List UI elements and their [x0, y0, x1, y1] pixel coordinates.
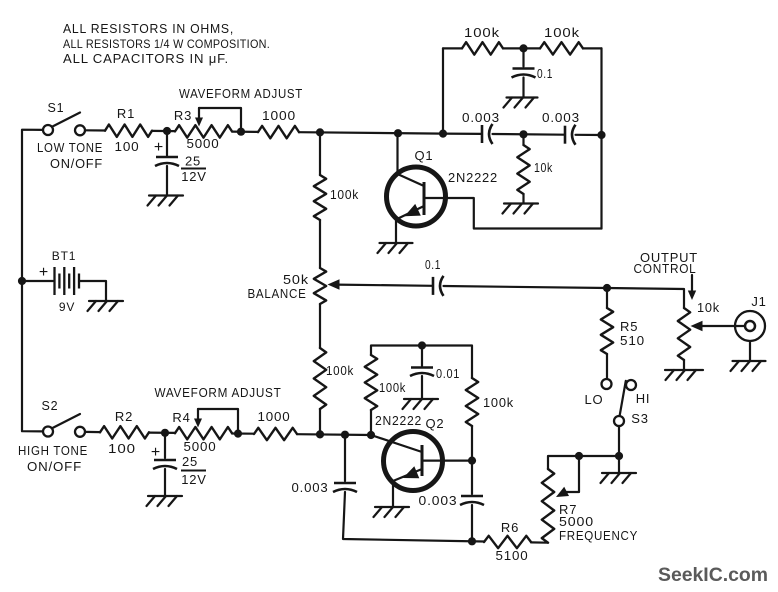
svg-text:R6: R6 [501, 520, 519, 535]
label BT1 polarity + [39, 264, 49, 281]
ground under S3 [601, 473, 637, 483]
wire: base lead of Q2 [371, 435, 422, 452]
svg-text:SeekIC.com: SeekIC.com [658, 564, 768, 586]
note: all capacitors in uF [63, 51, 229, 66]
svg-text:S2: S2 [42, 399, 59, 413]
svg-text:HI: HI [636, 391, 651, 406]
label R3 [174, 108, 192, 123]
junction: 0.003 chain node [341, 431, 349, 439]
resistor 10k twin-T shunt [517, 145, 529, 194]
label 0.003 second [542, 110, 580, 125]
label R2 [115, 409, 133, 424]
svg-text:1000: 1000 [262, 108, 296, 123]
wire: Q2 left 100k vertical [370, 410, 372, 435]
ground under C1 [148, 196, 184, 206]
wire: 0.1 cap to output node [444, 286, 685, 308]
note: all resistors in ohms [63, 21, 234, 36]
wire: 1000 to twin-T left [299, 132, 443, 133]
wire: Q1 emitter to ground [395, 220, 397, 243]
transistor Q2 circle [384, 432, 443, 491]
junction: Q2 base node [367, 431, 375, 439]
label 0.003 first [462, 110, 500, 125]
switch S2 throw contact [75, 427, 85, 437]
svg-text:9V: 9V [59, 300, 75, 314]
svg-text:S3: S3 [631, 411, 649, 426]
label R4 value 5000 [184, 439, 217, 454]
svg-text:510: 510 [620, 333, 645, 348]
capacitor 0.1 coupling [433, 276, 444, 296]
terminal LO contact [602, 379, 612, 389]
wire: output node to R5 [606, 288, 608, 308]
svg-text:+: + [39, 264, 49, 281]
svg-text:10k: 10k [697, 300, 720, 315]
capacitor 0.01 [410, 368, 434, 377]
svg-text:5000: 5000 [184, 439, 217, 454]
label R4 [172, 410, 190, 425]
svg-text:100k: 100k [483, 395, 514, 410]
note: all resistors 1/4 W composition [63, 37, 270, 51]
label R1 value 100 [115, 139, 140, 154]
resistor 1000 top [258, 126, 299, 138]
resistor 100k twin-T first [462, 42, 503, 54]
wire: twin-T top right lead [583, 47, 602, 49]
svg-text:100: 100 [115, 139, 140, 154]
resistor 100k Q2 left [365, 355, 377, 410]
svg-text:2N2222: 2N2222 [375, 413, 422, 428]
label WAVEFORM ADJUST (R3) [179, 86, 303, 101]
junction: R3 wiper tie [237, 128, 245, 136]
svg-text:+: + [154, 139, 164, 156]
wire: R6 to R7 bottom [531, 541, 548, 543]
capacitor 0.003 twin-T first [482, 124, 493, 144]
svg-text:100k: 100k [544, 25, 580, 40]
switch S1 pole contact [43, 125, 53, 135]
svg-text:100k: 100k [379, 380, 406, 395]
label BT1 value 9V [59, 300, 75, 314]
svg-text:J1: J1 [751, 294, 766, 309]
wire: rail to battery [22, 280, 53, 282]
svg-text:2N2222: 2N2222 [448, 170, 498, 185]
wire: battery to ground [79, 281, 106, 300]
wire: 0.003 first left lead [443, 133, 481, 135]
wire: R4 to 1000 bottom [232, 432, 254, 434]
svg-text:R5: R5 [620, 319, 638, 334]
wire: lower 100k to bottom row [319, 409, 321, 434]
junction: central vertical at bottom row [316, 430, 324, 438]
wire: 1000 to Q2 base node [297, 433, 371, 436]
svg-text:BALANCE: BALANCE [248, 286, 307, 301]
svg-text:0.003: 0.003 [419, 493, 458, 508]
svg-text:R1: R1 [117, 106, 135, 121]
junction: R7 wiper tie [575, 452, 583, 460]
svg-text:WAVEFORM ADJUST: WAVEFORM ADJUST [155, 385, 282, 400]
capacitor 0.1 twin-T shunt [512, 69, 536, 78]
connector J1 center pin [745, 321, 755, 331]
svg-text:5000: 5000 [559, 514, 594, 529]
wire: 10k to ground [522, 194, 524, 203]
svg-text:R3: R3 [174, 108, 192, 123]
label 0.1 twin-T [537, 66, 553, 81]
svg-text:LO: LO [585, 392, 604, 407]
resistor R4 potentiometer [175, 427, 232, 439]
capacitor 0.003 chain [333, 483, 357, 492]
svg-text:ALL RESISTORS IN OHMS,: ALL RESISTORS IN OHMS, [63, 21, 234, 36]
ground under 10k pot [665, 370, 703, 380]
junction: node A (R1/R3/C1) [163, 127, 171, 135]
label J1 [751, 294, 766, 309]
label S2 [42, 399, 59, 413]
svg-text:CONTROL: CONTROL [634, 261, 697, 276]
junction: bottom wire at Q2 0.003 [468, 537, 476, 545]
switch S1 throw contact [75, 125, 85, 135]
resistor R3 potentiometer [175, 125, 232, 137]
wire: Q2 network top [371, 346, 472, 379]
label ON/OFF for S1 [50, 156, 103, 171]
label 0.1 coupling [425, 257, 441, 272]
wire: twin-T left vertical [442, 48, 444, 133]
wire: Q2 emitter to ground [392, 481, 394, 506]
label Q1 [415, 148, 434, 163]
wire: chain node down to 0.003 [344, 435, 346, 481]
label 50k [283, 272, 309, 287]
capacitor 0.003 Q2 collector [460, 496, 484, 505]
svg-text:12V: 12V [181, 472, 207, 487]
wire: 0.003 second to twin-T right [576, 134, 602, 136]
resistor R1 [105, 125, 152, 137]
label C1 value 12V [181, 169, 207, 184]
label 1000 bottom [258, 409, 291, 424]
svg-text:100: 100 [108, 441, 136, 456]
svg-text:R2: R2 [115, 409, 133, 424]
wire: 100k to 50k balance [319, 220, 321, 268]
junction: S3 ground node [615, 452, 623, 460]
svg-text:100k: 100k [326, 363, 354, 378]
svg-text:5000: 5000 [187, 136, 220, 151]
label 100k twin-T second [544, 25, 580, 40]
terminal HI contact [626, 380, 636, 390]
svg-text:5100: 5100 [496, 548, 529, 563]
wire: R4 wiper arm bracket [198, 409, 238, 434]
svg-text:FREQUENCY: FREQUENCY [559, 528, 638, 543]
ground under 0.01 [403, 399, 439, 409]
junction: battery tap on left rail [18, 277, 26, 285]
svg-text:R4: R4 [172, 410, 190, 425]
label LOW TONE [37, 140, 103, 155]
label 100k central lower [326, 363, 354, 378]
label R1 [117, 106, 135, 121]
ground under 0.1 twin-T [504, 98, 538, 108]
resistor R2 [100, 426, 149, 438]
transistor Q1 base bar [423, 182, 426, 215]
svg-text:LOW TONE: LOW TONE [37, 140, 103, 155]
label 100k Q2 left [379, 380, 406, 395]
label 10k output control [697, 300, 720, 315]
potentiometer 50k BALANCE [314, 268, 326, 304]
connector J1 outer shell [735, 311, 765, 341]
ground under J1 [731, 361, 766, 371]
resistor 100k central upper [314, 175, 326, 220]
wire: S3 to ground node [618, 426, 620, 456]
wire: 10k shunt lead [522, 134, 524, 145]
wire: C1 to ground [166, 166, 168, 195]
label S3 [631, 411, 649, 426]
label HI [636, 391, 651, 406]
transistor Q1 collector lead [424, 198, 602, 229]
pointer arrow to output control [688, 275, 696, 300]
wire: C2 to ground [164, 469, 166, 495]
battery BT1 9V [55, 267, 80, 295]
wire: S3 node to ground [618, 456, 620, 472]
wire: S3 node to R7 top [548, 456, 619, 469]
wire: R5 to LO contact [606, 354, 608, 380]
wire: central node down [319, 132, 321, 175]
junction: R4 wiper tie [234, 430, 242, 438]
transistor Q1 circle [387, 167, 446, 226]
wire: 0.01 to ground [421, 376, 423, 398]
wire: S1 to R1 [85, 129, 105, 131]
svg-text:Q1: Q1 [415, 148, 434, 163]
svg-text:ALL CAPACITORS IN μF.: ALL CAPACITORS IN μF. [63, 51, 229, 66]
junction: central node [316, 128, 324, 136]
junction: twin-T left node [439, 130, 447, 138]
wire: node B down to C2 [164, 433, 166, 458]
switch S2 pole contact [43, 427, 53, 437]
label Q1 type 2N2222 [448, 170, 498, 185]
transistor Q2 collector lead [422, 460, 472, 462]
junction: twin-T bottom center (10k) [519, 130, 527, 138]
label C1 polarity + [154, 139, 164, 156]
ground under Q1 emitter [378, 243, 413, 253]
wire: 0.1 shunt lead [522, 48, 524, 66]
wire: 10k pot to ground [683, 360, 685, 369]
wire: 0.003 chain to bottom wire [343, 492, 484, 542]
ground under battery [88, 301, 124, 311]
label C2 value 25 [181, 454, 206, 471]
label ON/OFF for S2 [27, 459, 82, 474]
wiper arm of R7 [556, 456, 579, 497]
wire: R3 wiper arm bracket [199, 108, 241, 132]
wiper arrow of 50k balance [328, 279, 433, 289]
transistor Q2 base bar [421, 445, 424, 476]
svg-text:S1: S1 [48, 101, 65, 115]
label C2 value 12V [181, 472, 207, 487]
wire: R2 to R4 [149, 432, 175, 434]
label Q2 type 2N2222 [375, 413, 422, 428]
potentiometer 10k output control [678, 308, 690, 360]
label BALANCE [248, 286, 307, 301]
potentiometer R7 [542, 469, 554, 543]
wire: twin-T right vertical [600, 48, 602, 228]
label HIGH TONE [18, 443, 88, 458]
junction: output node at R5 [603, 284, 611, 292]
svg-text:Q2: Q2 [426, 416, 445, 431]
wire: Q2 collector node to 0.003 [471, 461, 473, 494]
switch S3 pivot contact [614, 416, 624, 426]
resistor R5 [601, 308, 613, 354]
label R7 [559, 502, 577, 517]
ground under Q2 emitter [374, 507, 410, 517]
label 10k twin-T [534, 160, 553, 175]
switch S2 arm [52, 414, 81, 429]
wire: R1 to R3 [152, 130, 175, 132]
svg-text:0.1: 0.1 [425, 257, 441, 272]
label BT1 [52, 249, 76, 263]
label C2 polarity + [151, 444, 161, 461]
wire: node A down to C1 [166, 131, 168, 156]
junction: Q2 collector node [468, 457, 476, 465]
label R3 value 5000 [187, 136, 220, 151]
wire: twin-T top left lead [443, 47, 462, 49]
label R7 value 5000 [559, 514, 594, 529]
svg-text:ON/OFF: ON/OFF [50, 156, 103, 171]
wiper arrow of R3 [195, 108, 203, 127]
svg-text:ALL RESISTORS 1/4 W COMPOSITIO: ALL RESISTORS 1/4 W COMPOSITION. [63, 37, 270, 51]
capacitor C2 electrolytic 25uF 12V [153, 460, 177, 469]
transistor Q2 emitter lead with arrow [393, 466, 422, 481]
capacitor 0.003 twin-T second [565, 125, 576, 145]
resistor 100k twin-T second [540, 42, 583, 54]
svg-text:25: 25 [185, 154, 201, 169]
resistor 1000 bottom [254, 428, 297, 440]
transistor Q1 emitter lead with arrow [396, 204, 424, 220]
label FREQUENCY [559, 528, 638, 543]
svg-text:ON/OFF: ON/OFF [27, 459, 82, 474]
svg-text:10k: 10k [534, 160, 553, 175]
svg-text:HIGH TONE: HIGH TONE [18, 443, 88, 458]
wire: J1 shell to ground [749, 341, 751, 361]
label 0.003 Q2 [419, 493, 458, 508]
label C1 value 25 [181, 154, 206, 169]
wire: left rail from S1 row to S2 row [22, 130, 43, 432]
wire: 0.003 to 10k node [493, 133, 565, 136]
wire: 0.003 Q2 to bottom wire [471, 505, 473, 541]
wire: 100k to Q2 collector node [471, 426, 473, 461]
svg-text:0.1: 0.1 [537, 66, 553, 81]
switch S3 arm [620, 381, 626, 417]
label 100k Q2 right [483, 395, 514, 410]
label R6 value 5100 [496, 548, 529, 563]
svg-text:+: + [151, 444, 161, 461]
label 0.01 [436, 366, 460, 381]
switch S1 arm [52, 113, 81, 128]
label LO [585, 392, 604, 407]
wire: base lead of Q1 [398, 133, 425, 186]
label R5 value 510 [620, 333, 645, 348]
resistor 100k Q2 right [466, 378, 478, 426]
wire: 0.1 shunt to ground [522, 78, 524, 98]
label CONTROL [634, 261, 697, 276]
label Q2 [426, 416, 445, 431]
wire: 0.01 lead [421, 346, 423, 367]
label WAVEFORM ADJUST (R4) [155, 385, 282, 400]
label R6 [501, 520, 519, 535]
wire: S2 to R2 [85, 431, 100, 433]
svg-text:BT1: BT1 [52, 249, 76, 263]
svg-text:50k: 50k [283, 272, 309, 287]
label R2 value 100 [108, 441, 136, 456]
junction: 0.01 node on Q2 top wire [418, 341, 426, 349]
label 1000 top [262, 108, 296, 123]
svg-text:0.003: 0.003 [292, 480, 329, 495]
svg-text:25: 25 [182, 454, 198, 469]
wire: between twin-T 100k resistors [503, 47, 540, 49]
svg-text:100k: 100k [330, 187, 359, 202]
label R5 [620, 319, 638, 334]
junction: twin-T right node [597, 131, 605, 139]
capacitor C1 electrolytic 25uF 12V [155, 157, 179, 166]
resistor R6 [484, 536, 531, 548]
wiper arrow of 10k pot [691, 321, 746, 331]
junction: Q1 base node [394, 129, 402, 137]
wire: R3 to 1000 resistor [232, 131, 258, 133]
svg-text:0.003: 0.003 [542, 110, 580, 125]
svg-text:WAVEFORM ADJUST: WAVEFORM ADJUST [179, 86, 303, 101]
resistor 100k central lower [314, 348, 326, 409]
svg-text:0.01: 0.01 [436, 366, 460, 381]
junction: node B (R2/R4/C2) [161, 429, 169, 437]
label 100k central upper [330, 187, 359, 202]
label 100k twin-T first [464, 25, 500, 40]
label OUTPUT [640, 250, 698, 265]
svg-text:12V: 12V [181, 169, 207, 184]
ground under 10k [503, 204, 539, 214]
label S1 [48, 101, 65, 115]
svg-text:0.003: 0.003 [462, 110, 500, 125]
svg-text:1000: 1000 [258, 409, 291, 424]
junction: twin-T top center [519, 44, 527, 52]
svg-text:100k: 100k [464, 25, 500, 40]
label 0.003 chain [292, 480, 329, 495]
ground under C2 [147, 496, 183, 506]
watermark SeekIC.com [658, 564, 768, 586]
wire: 50k to lower 100k [319, 304, 321, 348]
wiper arrow of R4 [194, 409, 202, 428]
